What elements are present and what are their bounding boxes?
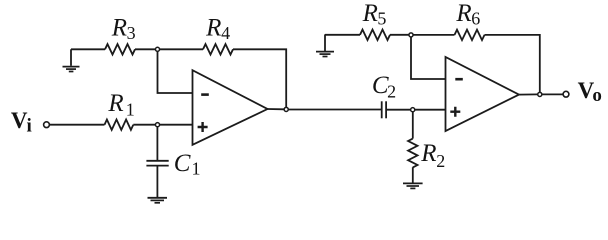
svg-text:1: 1 <box>126 99 135 119</box>
svg-text:5: 5 <box>377 9 386 29</box>
svg-text:6: 6 <box>471 9 480 29</box>
svg-text:R: R <box>205 14 221 41</box>
svg-text:4: 4 <box>221 23 230 43</box>
svg-text:V: V <box>11 108 28 133</box>
svg-text:2: 2 <box>436 151 445 171</box>
svg-text:R: R <box>111 14 127 41</box>
svg-text:R: R <box>362 0 378 27</box>
svg-text:R: R <box>107 90 123 117</box>
svg-text:o: o <box>592 85 602 106</box>
svg-text:C: C <box>174 150 191 177</box>
svg-text:2: 2 <box>387 81 396 101</box>
svg-text:3: 3 <box>127 23 136 43</box>
svg-text:1: 1 <box>192 158 201 178</box>
svg-text:R: R <box>455 0 471 27</box>
svg-text:i: i <box>27 115 32 136</box>
svg-text:R: R <box>420 140 436 167</box>
